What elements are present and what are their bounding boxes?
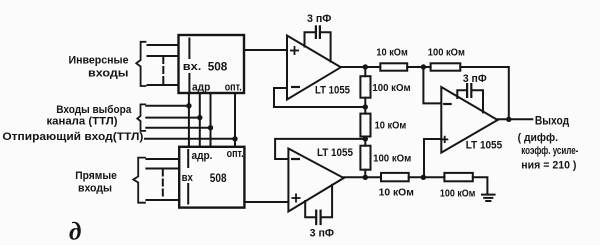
op-amp A1 LT1055 triangle — [287, 36, 341, 100]
resistor R3 100k vertical — [360, 76, 370, 98]
inverting input wire 2 — [148, 55, 179, 57]
node B (R1-R2 junction) — [421, 64, 426, 69]
address bus vertical wire A1 — [199, 93, 201, 147]
wire R5 to node B2 — [364, 170, 366, 177]
channel select wire 2 — [146, 117, 200, 119]
svg-text:508: 508 — [210, 171, 227, 185]
svg-text:коэфф. усиле-: коэфф. усиле- — [521, 145, 578, 157]
node B2 (A2 output) — [363, 175, 368, 180]
channel select brace — [137, 104, 145, 130]
svg-text:Отпирающий вход(ТТЛ): Отпирающий вход(ТТЛ) — [2, 131, 143, 143]
ellipsis dashed line (top inputs) — [162, 57, 164, 84]
node E (A2 feedback / R4-R5) — [363, 136, 368, 141]
svg-text:опт.: опт. — [227, 148, 244, 160]
svg-text:адр: адр — [192, 82, 211, 94]
svg-text:LT 1055: LT 1055 — [466, 140, 503, 152]
svg-text:508: 508 — [208, 60, 228, 74]
capacitor C3 right lead — [472, 90, 483, 112]
resistor R5 100k vertical — [360, 146, 370, 170]
wire node A to R3 — [364, 67, 366, 76]
capacitor C2 3pF left lead — [305, 201, 315, 217]
wire R3 to node D — [364, 98, 366, 107]
capacitor C1 plates — [315, 26, 317, 38]
inverting input wire 3 — [148, 84, 179, 86]
svg-text:входы: входы — [78, 182, 112, 194]
channel select wire 1 — [146, 105, 189, 107]
capacitor C2 plates — [315, 211, 317, 224]
multiplexer U2 508 (bottom) box — [179, 147, 244, 208]
direct input wire 2 — [146, 168, 179, 170]
junction node on channel select 2 — [197, 115, 202, 120]
svg-text:10 кОм: 10 кОм — [375, 119, 407, 131]
wire U2 output to op-amp A2 + input — [244, 201, 288, 203]
capacitor C3 plates — [466, 84, 468, 97]
multiplexer U1 508 (top) box — [179, 35, 245, 93]
direct input wire 3 — [146, 199, 179, 201]
svg-text:100 кОм: 100 кОм — [428, 47, 465, 59]
svg-text:входы: входы — [88, 68, 129, 80]
node A (A1 output) — [363, 64, 368, 69]
node C (R6-R7 junction) — [421, 175, 426, 180]
wire node D to R4 — [364, 107, 366, 114]
U2 internal divider (upper segment) — [187, 150, 189, 167]
capacitor C3 3pF left lead — [457, 90, 466, 98]
svg-text:Выход: Выход — [535, 113, 570, 127]
svg-text:10 кОм: 10 кОм — [379, 187, 415, 199]
wire node E to R5 — [364, 139, 366, 146]
junction node on enable — [232, 136, 237, 141]
svg-text:10 кОм: 10 кОм — [376, 47, 408, 59]
wire A3 output — [498, 118, 533, 120]
op-amp A2 plus sign — [292, 194, 301, 203]
inverting inputs brace — [136, 42, 145, 86]
enable vertical wire EN — [234, 93, 236, 147]
svg-text:Входы выбора: Входы выбора — [56, 104, 132, 116]
op-amp A1 plus sign — [290, 46, 299, 55]
capacitor C1 3pF left lead — [305, 32, 316, 46]
address bus vertical wire A2 — [210, 93, 212, 147]
ground symbol — [482, 194, 495, 196]
svg-text:вх: вх — [182, 172, 194, 184]
wire R6 to node C — [409, 176, 445, 178]
svg-text:3 пФ: 3 пФ — [310, 227, 334, 239]
capacitor C2 right lead — [321, 185, 332, 217]
wire node B to A3 - input — [423, 67, 441, 103]
output node (A3 out) — [506, 117, 511, 122]
svg-text:Инверсные: Инверсные — [69, 55, 129, 67]
U1 internal divider (upper segment) — [188, 39, 190, 59]
resistor R2 100k horizontal — [431, 63, 461, 70]
channel select wire 3 — [146, 127, 210, 129]
U2 internal divider (lower segment) — [187, 184, 189, 204]
svg-text:LT 1055: LT 1055 — [315, 85, 350, 97]
svg-text:LT 1055: LT 1055 — [317, 147, 353, 159]
wire R7 to ground — [473, 177, 488, 194]
wire A1 output to node A — [341, 66, 381, 68]
address bus vertical wire A0 — [188, 93, 190, 147]
op-amp A2 minus sign — [291, 158, 300, 160]
wire A2 output to node B2 — [344, 176, 381, 178]
svg-text:ния = 210 ): ния = 210 ) — [521, 159, 576, 171]
U1 internal divider (lower segment) — [188, 74, 190, 92]
junction node on channel select 1 — [186, 103, 191, 108]
direct input wire 1 — [146, 158, 179, 160]
op-amp A2 LT1055 triangle — [288, 149, 343, 212]
op-amp A1 minus sign — [291, 86, 300, 88]
op-amp A3 minus sign — [443, 103, 452, 105]
wire R2 to feedback corner — [460, 67, 509, 119]
A1 feedback wire (output to - input) — [274, 88, 365, 107]
capacitor C1 right lead — [321, 32, 331, 61]
resistor R1 10k horizontal — [380, 63, 407, 70]
direct inputs brace — [133, 158, 145, 203]
svg-text:Прямые: Прямые — [75, 170, 117, 182]
inverting input wire 1 — [148, 44, 179, 46]
A2 feedback wire (- input to node E) — [275, 139, 365, 159]
wire R1 to node B — [407, 66, 430, 68]
resistor R4 10k vertical — [360, 114, 370, 137]
svg-text:д: д — [69, 219, 81, 245]
svg-text:вх.: вх. — [183, 61, 202, 73]
svg-text:( дифф.: ( дифф. — [518, 132, 558, 144]
node D (A1 feedback / R3-R4) — [363, 104, 368, 109]
svg-text:100 кОм: 100 кОм — [372, 82, 410, 94]
op-amp A3 plus sign — [441, 136, 448, 143]
svg-text:канала (ТТЛ): канала (ТТЛ) — [47, 115, 118, 127]
svg-text:3 пФ: 3 пФ — [307, 13, 331, 25]
svg-text:3 пФ: 3 пФ — [463, 73, 487, 85]
svg-text:100 кОм: 100 кОм — [373, 153, 411, 165]
wire node C to A3 + input — [424, 139, 441, 177]
resistor R6 10k horizontal bottom — [381, 173, 409, 181]
junction node on channel select 3 — [208, 125, 213, 130]
ellipsis dashed line (bottom inputs) — [162, 170, 164, 200]
resistor R7 100k horizontal bottom — [444, 173, 472, 181]
svg-text:100 кОм: 100 кОм — [440, 187, 476, 199]
wire R4 to node E — [364, 137, 366, 139]
enable input wire — [145, 138, 235, 140]
svg-text:опт.: опт. — [225, 82, 242, 94]
svg-text:адр.: адр. — [192, 150, 213, 162]
op-amp A3 LT1055 triangle — [441, 87, 497, 153]
wire U1 output to op-amp A1 + input — [244, 49, 287, 51]
